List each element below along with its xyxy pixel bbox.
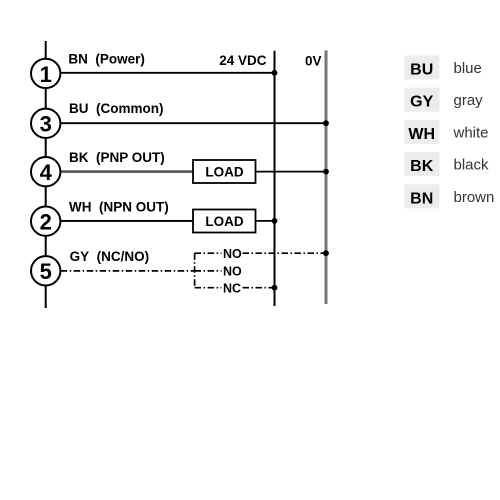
svg-text:0V: 0V xyxy=(305,54,322,69)
svg-text:3: 3 xyxy=(40,112,52,137)
svg-text:black: black xyxy=(454,157,490,174)
terminal pin 5 (GY) xyxy=(31,256,60,285)
svg-text:BK (PNP OUT): BK (PNP OUT) xyxy=(69,150,165,165)
wire: bracket to NC (bottom) xyxy=(195,287,222,289)
svg-text:NC: NC xyxy=(223,282,241,296)
wire: BU (Common) to 0V rail xyxy=(61,122,326,124)
svg-text:GY (NC/NO): GY (NC/NO) xyxy=(70,249,150,264)
svg-text:BN: BN xyxy=(410,190,433,207)
terminal pin 3 (BU) xyxy=(31,109,60,138)
junction dot: NC / 24VDC xyxy=(272,285,278,291)
svg-text:blue: blue xyxy=(454,60,482,77)
wire: bracket to NO (top) xyxy=(195,252,222,254)
svg-text:white: white xyxy=(453,124,489,141)
wire: bracket to NO (middle) xyxy=(195,270,222,272)
wire: NC to 24VDC rail xyxy=(243,287,275,289)
svg-text:LOAD: LOAD xyxy=(205,214,243,229)
svg-text:BU: BU xyxy=(410,62,433,79)
svg-text:NO: NO xyxy=(223,247,242,261)
terminal pin 1 (BN) xyxy=(31,59,60,88)
svg-text:LOAD: LOAD xyxy=(205,164,243,179)
wire: BN (Power) to 24VDC rail xyxy=(61,72,275,74)
junction dot: BN / 24VDC xyxy=(272,70,278,76)
power rail: 24 VDC vertical line xyxy=(274,51,276,306)
load L1 (PNP output load) xyxy=(193,160,256,183)
wire: WH (NPN OUT) to LOAD xyxy=(61,220,193,222)
legend swatch BK xyxy=(404,152,440,176)
terminal pin 2 (WH) xyxy=(31,207,60,236)
power rail: 0V vertical line xyxy=(325,50,328,304)
svg-text:WH: WH xyxy=(408,126,435,143)
wire: NO (top) to 0V rail xyxy=(243,252,327,254)
svg-text:NO: NO xyxy=(223,265,242,279)
legend swatch WH xyxy=(404,120,440,144)
svg-text:2: 2 xyxy=(40,210,52,235)
wire: BK (PNP OUT) to LOAD xyxy=(61,170,193,173)
legend swatch GY xyxy=(404,88,440,112)
wire: LOAD2 to 24VDC rail xyxy=(256,220,275,222)
svg-text:BN (Power): BN (Power) xyxy=(68,52,145,67)
wire: left vertical sensor bus xyxy=(45,41,47,308)
svg-text:1: 1 xyxy=(40,62,52,87)
terminal pin 4 (BK) xyxy=(31,157,60,186)
junction dot: LOAD1 / 0V xyxy=(323,169,329,175)
selector bracket vertical dashed line xyxy=(194,253,196,288)
junction dot: BU / 0V xyxy=(323,120,329,126)
svg-text:5: 5 xyxy=(40,259,52,284)
svg-text:gray: gray xyxy=(454,92,484,109)
svg-text:GY: GY xyxy=(410,94,433,111)
legend swatch BU xyxy=(404,56,440,80)
svg-text:BU (Common): BU (Common) xyxy=(69,101,164,116)
svg-text:brown: brown xyxy=(454,189,495,206)
svg-text:WH (NPN OUT): WH (NPN OUT) xyxy=(69,199,169,214)
svg-text:BK: BK xyxy=(410,158,434,175)
junction dot: NO / 0V xyxy=(323,250,329,256)
wire: LOAD1 to 0V rail xyxy=(256,171,327,173)
legend swatch BN xyxy=(404,184,440,208)
wire: GY (NC/NO) dashed to selector bracket xyxy=(61,270,195,272)
svg-text:4: 4 xyxy=(40,160,53,185)
load L2 (NPN output load) xyxy=(193,210,256,233)
junction dot: LOAD2 / 24VDC xyxy=(272,218,278,224)
svg-text:24 VDC: 24 VDC xyxy=(219,53,267,68)
